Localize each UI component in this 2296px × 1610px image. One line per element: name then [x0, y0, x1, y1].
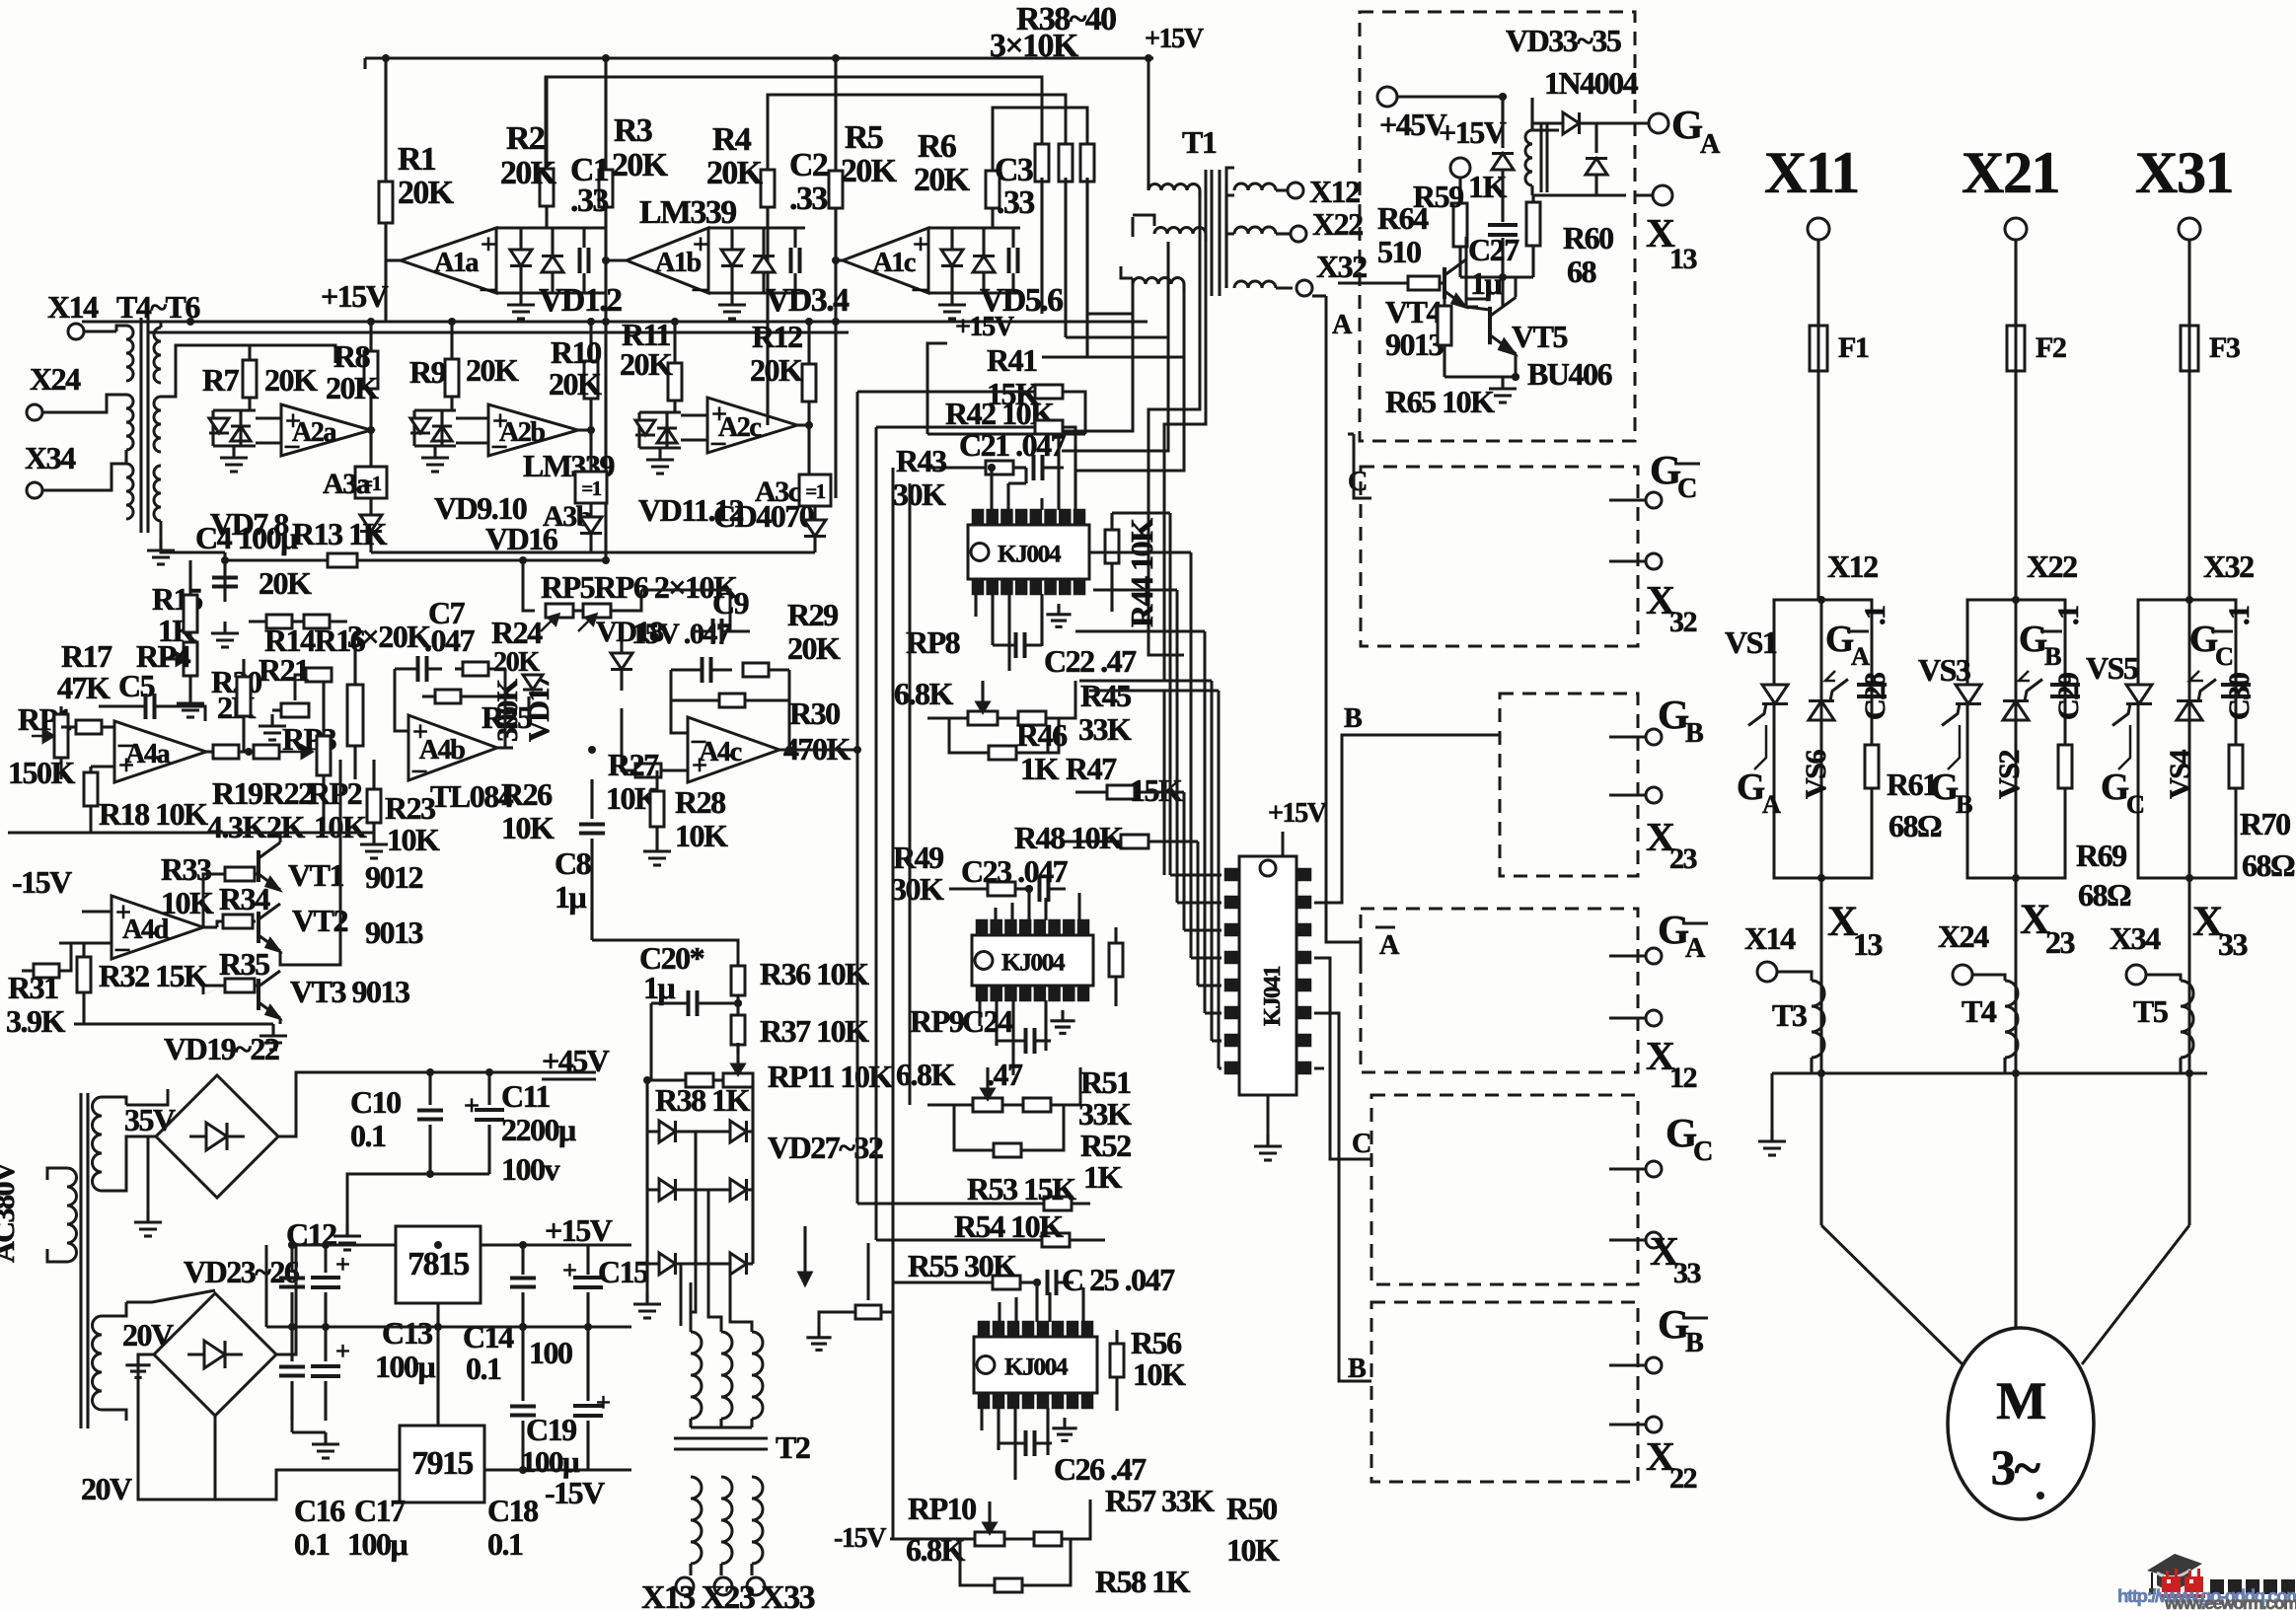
- label R45 33K: [1078, 678, 1132, 747]
- op-amp A2c: [681, 398, 797, 453]
- watermark chongchong red: [2160, 1569, 2205, 1598]
- label +15V top right: [1145, 24, 1205, 54]
- label R49 30K: [891, 840, 944, 907]
- diode A3c out: [804, 506, 826, 552]
- svg-text:R69: R69: [2076, 838, 2126, 873]
- terminal X14: [47, 289, 116, 339]
- diode VD1: [496, 228, 606, 293]
- label X13 big: [1827, 899, 1883, 962]
- diode VD3: [708, 228, 805, 293]
- ground A1b: [718, 293, 746, 319]
- resistor R8: [326, 322, 379, 467]
- label C26 .47: [1054, 1451, 1147, 1487]
- T5 coil: [2146, 975, 2193, 1073]
- svg-text:R35: R35: [219, 946, 269, 982]
- pot RP9: [927, 1067, 1002, 1112]
- svg-text:+: +: [481, 230, 495, 260]
- svg-text:R29: R29: [787, 597, 838, 632]
- terminal GBbar t1: [1609, 1357, 1662, 1373]
- svg-text:R46: R46: [1016, 717, 1068, 753]
- resistor R15: [152, 560, 202, 648]
- wire A4c minus: [671, 700, 688, 733]
- label X13 X23 X33: [641, 1579, 815, 1610]
- svg-text:VT4: VT4: [1385, 294, 1442, 329]
- resistor R14: [249, 615, 304, 628]
- svg-text:23: 23: [1669, 842, 1698, 875]
- label C17 100u: [347, 1493, 408, 1562]
- capacitor C22: [993, 632, 1042, 658]
- label R50 10K: [1226, 1491, 1280, 1568]
- svg-text:C: C: [1693, 1136, 1712, 1167]
- svg-text:+: +: [335, 1337, 349, 1365]
- label C20* 1u: [639, 940, 704, 1005]
- junction dots top bus: [382, 54, 1152, 62]
- wire A4c out: [779, 746, 858, 754]
- svg-text:VT5: VT5: [1512, 319, 1567, 354]
- capacitor C11: [464, 1068, 504, 1174]
- svg-text:30K: 30K: [891, 871, 944, 907]
- svg-text:VD3.4: VD3.4: [766, 282, 850, 319]
- svg-text:20K: 20K: [914, 162, 971, 198]
- wire trunk b: [1046, 278, 1133, 431]
- svg-text:20K: 20K: [500, 155, 557, 191]
- transistor VT2: [259, 903, 423, 951]
- label X32 r: [2203, 549, 2254, 584]
- cap C15: [510, 1241, 536, 1331]
- KJ041 left pins: [1225, 869, 1239, 1073]
- wire kj041 right1: [1314, 735, 1500, 903]
- resistor R49b: [949, 882, 1033, 896]
- svg-text:4.3K: 4.3K: [207, 809, 267, 844]
- resistor R60: [1526, 195, 1613, 289]
- fuse F2: [2007, 240, 2066, 600]
- label C19 100u: [521, 1412, 580, 1479]
- svg-text:R58 1K: R58 1K: [1095, 1564, 1191, 1599]
- svg-text:RP2: RP2: [308, 775, 362, 811]
- resistor R22: [254, 745, 313, 844]
- svg-text:R34: R34: [219, 881, 270, 916]
- watermark url gray: [2164, 1593, 2296, 1610]
- label R5 20K: [841, 119, 898, 189]
- label R4 20K: [706, 121, 764, 191]
- svg-text:VD19~22: VD19~22: [164, 1031, 279, 1066]
- wire R40 bottom run: [1087, 312, 1133, 315]
- label LM339 row2: [523, 448, 615, 483]
- wire mesh vertical 1: [856, 392, 859, 1204]
- capacitor C21: [1034, 455, 1065, 480]
- T1 secondary coil 3: [1234, 281, 1293, 288]
- resistor R57: [1034, 1483, 1215, 1546]
- label R42 10K: [945, 396, 1055, 431]
- fuse F1: [1810, 240, 1869, 600]
- label B box3: [1344, 703, 1363, 734]
- op-amp A1c: [832, 228, 928, 294]
- resistor R45: [998, 681, 1075, 725]
- label T5: [2133, 993, 2168, 1029]
- svg-text:R38 1K: R38 1K: [655, 1082, 751, 1118]
- svg-text:+: +: [335, 1250, 349, 1279]
- svg-text:+15V: +15V: [955, 312, 1015, 342]
- svg-text:20K: 20K: [326, 370, 379, 405]
- label VD11.12: [638, 492, 743, 528]
- svg-text:C10: C10: [350, 1084, 401, 1120]
- svg-text:33: 33: [2218, 926, 2248, 962]
- sec coil 35V: [93, 1097, 127, 1191]
- svg-text:A3a: A3a: [323, 467, 371, 500]
- label RP9 C24: [910, 1003, 1013, 1039]
- diode A3a out: [360, 498, 382, 552]
- pot RP4: [136, 638, 204, 717]
- terminal GAbar t2: [1609, 1010, 1662, 1026]
- svg-text:B: B: [1956, 790, 1972, 819]
- wire 7815 out: [481, 1212, 631, 1248]
- svg-text:X24: X24: [30, 361, 81, 397]
- resistor R58: [960, 1539, 1191, 1599]
- svg-text:R22: R22: [262, 775, 313, 811]
- label C21 .047: [959, 427, 1067, 463]
- svg-text:C: C: [2215, 642, 2233, 671]
- svg-text:C19: C19: [526, 1412, 576, 1447]
- junction dots rails: [288, 1069, 2193, 1331]
- svg-text:C29: C29: [2051, 673, 2085, 720]
- svg-text:3×10K: 3×10K: [990, 28, 1079, 64]
- svg-text:X34: X34: [2110, 920, 2161, 956]
- label T3: [1772, 997, 1807, 1033]
- label 20V: [122, 1317, 174, 1353]
- svg-text:X11: X11: [1764, 140, 1859, 206]
- svg-text:B: B: [1348, 1354, 1367, 1384]
- wire trunk c: [1062, 242, 1168, 451]
- resistor R52: [954, 1105, 1131, 1195]
- terminal GAbar t1: [1609, 948, 1662, 964]
- pot RP3: [259, 675, 336, 757]
- cap C13: [311, 1241, 349, 1327]
- resistor R36: [731, 956, 869, 1016]
- svg-text:20K: 20K: [549, 366, 602, 402]
- T4 coil: [1972, 975, 2018, 1073]
- op-amp A4b: [408, 715, 513, 780]
- T1 secondary common: [1226, 168, 1234, 288]
- wire row2 out: [371, 550, 815, 553]
- label X33 big: [2192, 899, 2248, 962]
- resistor R23: [360, 760, 440, 858]
- svg-text:C 25 .047: C 25 .047: [1062, 1262, 1175, 1297]
- label CD4070: [713, 498, 814, 534]
- label C11 2200u 100v: [501, 1078, 576, 1187]
- resistor R42: [876, 420, 1075, 446]
- svg-text:1μ: 1μ: [555, 879, 587, 915]
- svg-text:+45V: +45V: [1379, 107, 1447, 142]
- label B box6: [1348, 1354, 1367, 1384]
- T2 primary coils: [691, 1190, 763, 1427]
- sec coil 20V: [93, 1302, 127, 1421]
- svg-text:R48 10K: R48 10K: [1014, 820, 1124, 855]
- svg-text:10K: 10K: [501, 810, 555, 845]
- transformer T4-T6 secondary: [154, 328, 161, 521]
- op-amp A1a: [386, 228, 496, 294]
- svg-text:6.8K: 6.8K: [894, 676, 954, 711]
- svg-text:T5: T5: [2133, 993, 2168, 1029]
- svg-text:C3: C3: [995, 152, 1033, 188]
- op-amp A4c: [688, 715, 779, 782]
- resistor R2: [540, 77, 554, 228]
- wire A4a fb: [91, 766, 114, 768]
- svg-text:23: 23: [2045, 924, 2075, 960]
- svg-text:RP5RP6 2×10K: RP5RP6 2×10K: [541, 569, 738, 605]
- svg-text:C28: C28: [1858, 672, 1891, 720]
- terminal X13b: [676, 1577, 694, 1595]
- svg-text:B: B: [1685, 1328, 1704, 1358]
- label 3x20K: [347, 619, 431, 654]
- wire to RP5: [523, 560, 535, 611]
- svg-text:R56: R56: [1131, 1325, 1182, 1360]
- wire kj041 right3: [1314, 1013, 1371, 1381]
- label VD33~35: [1506, 23, 1621, 58]
- watermark url blue: [2117, 1585, 2296, 1606]
- svg-text:=1: =1: [805, 481, 825, 503]
- label X32 box: [1646, 577, 1697, 638]
- svg-text:C22 .47: C22 .47: [1044, 643, 1137, 679]
- svg-text:G: G: [2189, 620, 2218, 660]
- wire pulse gnd rail: [1772, 1073, 2207, 1130]
- label A node: [1332, 310, 1353, 340]
- svg-text:RP10: RP10: [908, 1491, 976, 1526]
- svg-text:F3: F3: [2209, 330, 2241, 364]
- capacitor C9: [691, 619, 750, 644]
- svg-text:X12: X12: [1827, 549, 1878, 584]
- dashed box GC: [1371, 1095, 1638, 1284]
- wire kj041 right4: [1314, 1067, 1324, 1070]
- diode VD12: [657, 412, 677, 448]
- svg-text:33K: 33K: [1078, 1096, 1132, 1132]
- svg-text:C7: C7: [428, 595, 466, 630]
- svg-text:+: +: [464, 1091, 479, 1122]
- svg-text:10K: 10K: [675, 818, 728, 853]
- svg-text:LM339: LM339: [639, 194, 736, 231]
- terminal X14 r: [1744, 920, 1796, 982]
- capacitor C2: [791, 228, 800, 293]
- label C5: [118, 668, 155, 703]
- wire C20 branch: [592, 940, 738, 967]
- caps below rail: [279, 1327, 349, 1421]
- regulator 7815: [396, 1226, 481, 1303]
- svg-text:33: 33: [1673, 1256, 1702, 1289]
- svg-text:R51: R51: [1080, 1064, 1131, 1100]
- label R70 68: [2240, 806, 2295, 883]
- svg-text:20K: 20K: [841, 153, 898, 189]
- svg-text:A: A: [1762, 790, 1781, 819]
- svg-text:.33: .33: [789, 181, 827, 217]
- svg-text:G: G: [1671, 102, 1703, 147]
- xor A3b: [543, 472, 607, 533]
- label VD16: [485, 521, 558, 556]
- label C18 0.1: [487, 1493, 538, 1562]
- svg-text:+15V: +15V: [1439, 114, 1507, 150]
- resistor R33: [161, 851, 259, 920]
- svg-text:RP11 10K: RP11 10K: [768, 1059, 893, 1094]
- svg-text:R5: R5: [845, 119, 883, 156]
- resistor R38: [1035, 144, 1049, 314]
- wires kj1 bottom: [976, 594, 1072, 671]
- resistor R6: [986, 171, 1000, 228]
- label 35V: [124, 1102, 176, 1137]
- svg-text:R70: R70: [2240, 806, 2290, 842]
- svg-text:R26: R26: [501, 776, 553, 812]
- node A wire: [1312, 296, 1361, 942]
- wire sec out right: [161, 345, 335, 397]
- wires kj3 top: [1000, 1282, 1083, 1322]
- svg-text:R36 10K: R36 10K: [760, 956, 869, 991]
- label C3 .33: [995, 152, 1034, 221]
- resistor R48: [1014, 820, 1169, 855]
- diode VD9: [410, 410, 456, 446]
- svg-text:R18 10K: R18 10K: [99, 796, 208, 832]
- svg-text:C: C: [2126, 790, 2144, 819]
- wires kj2 top: [996, 889, 1079, 920]
- label +15V kj1: [927, 312, 1015, 434]
- label X22 box: [1646, 1433, 1697, 1495]
- label C1 .33: [570, 152, 609, 219]
- svg-text:+: +: [692, 751, 706, 781]
- svg-text:R31: R31: [8, 970, 58, 1005]
- label X12 r: [1827, 549, 1878, 584]
- mid rail: [266, 1245, 631, 1331]
- op-amp A4a: [114, 719, 206, 782]
- svg-text:9012: 9012: [365, 859, 423, 895]
- svg-text:R57 33K: R57 33K: [1105, 1483, 1215, 1518]
- resistor R53: [857, 1171, 1090, 1210]
- terminal X23b: [714, 1577, 732, 1595]
- svg-text:X22: X22: [2027, 549, 2077, 584]
- svg-text:A1c: A1c: [872, 248, 915, 278]
- label R65 10K: [1385, 384, 1495, 419]
- dashed box VD33-35: [1360, 12, 1635, 441]
- svg-text:R54 10K: R54 10K: [954, 1208, 1064, 1244]
- svg-text:.47: .47: [987, 1057, 1023, 1092]
- svg-text:VS4: VS4: [2163, 750, 2196, 799]
- resistor R5: [829, 58, 843, 498]
- label VD5.6: [980, 282, 1063, 319]
- ground mid: [292, 1421, 339, 1458]
- wire +15V top bus: [365, 58, 1153, 69]
- resistor R21: [259, 652, 332, 688]
- diode bridge VD27-32: [647, 1080, 753, 1282]
- wire kj041 right2: [1314, 958, 1371, 1159]
- label R26 10K: [501, 776, 555, 845]
- svg-text:12: 12: [1669, 1061, 1697, 1094]
- label R3 20K: [612, 112, 669, 183]
- bridge mid vertical: [694, 1132, 697, 1264]
- svg-text:7815: 7815: [407, 1246, 469, 1282]
- T1 primary coil 1: [1148, 183, 1200, 198]
- capacitor C20: [651, 990, 742, 1080]
- resistor R1: [379, 58, 393, 322]
- svg-text:0.1: 0.1: [487, 1526, 523, 1562]
- label R69 68: [2076, 838, 2131, 913]
- terminal +15V drv: [1450, 158, 1470, 203]
- svg-text:C24: C24: [962, 1003, 1013, 1039]
- svg-text:3.9K: 3.9K: [6, 1003, 66, 1039]
- svg-text:20K: 20K: [259, 565, 312, 601]
- thyristor module C VS5/VS4: [2101, 596, 2256, 882]
- dashed box GCbar: [1361, 467, 1638, 646]
- svg-text:100μ: 100μ: [521, 1444, 580, 1479]
- svg-text:B: B: [1685, 718, 1704, 749]
- terminal GA out: [1649, 102, 1721, 160]
- svg-text:1N4004: 1N4004: [1544, 65, 1639, 101]
- svg-text:C16: C16: [294, 1493, 345, 1528]
- wire R38 bottom run: [1042, 355, 1184, 358]
- label GCbar: [1650, 447, 1700, 504]
- resistor R3: [599, 58, 613, 560]
- svg-text:T1: T1: [1182, 124, 1217, 160]
- svg-text:A: A: [1332, 310, 1353, 340]
- svg-text:C21 .047: C21 .047: [959, 427, 1067, 463]
- ground VT3: [259, 1024, 287, 1050]
- wire box2 entry: [1348, 434, 1371, 498]
- resistor R34: [203, 881, 270, 928]
- svg-text:A1a: A1a: [434, 248, 479, 278]
- svg-text:X24: X24: [1938, 918, 1989, 954]
- terminal X24 r: [1938, 918, 1989, 985]
- svg-text:1μ: 1μ: [1470, 265, 1503, 301]
- capacitor C3: [1009, 228, 1018, 293]
- svg-text:C4 100μ: C4 100μ: [195, 520, 298, 555]
- label C23 .047: [961, 853, 1069, 889]
- label +15V drv: [1439, 114, 1507, 150]
- svg-text:.1: .1: [2222, 606, 2256, 625]
- wire A4b net: [395, 669, 505, 748]
- svg-text:-15V: -15V: [834, 1523, 887, 1554]
- gnd VD27: [633, 1282, 661, 1318]
- watermark site name: [2210, 1579, 2295, 1594]
- diode VD11: [635, 412, 681, 448]
- label C8 1u: [555, 845, 591, 915]
- label T1: [1182, 124, 1217, 160]
- resistor R32: [77, 943, 208, 1024]
- label C9: [712, 585, 749, 621]
- svg-text:R12: R12: [752, 319, 802, 354]
- label -15V .047: [631, 617, 731, 650]
- ground VD7.8: [220, 446, 248, 472]
- capacitor C10: [417, 1068, 443, 1174]
- wires kj1 top: [927, 434, 1085, 510]
- label VD7.8: [210, 506, 288, 542]
- wire T4 sec bottom: [147, 521, 225, 564]
- svg-text:.1: .1: [2051, 606, 2085, 625]
- svg-text:C23 .047: C23 .047: [961, 853, 1069, 889]
- svg-text:C8: C8: [555, 845, 591, 881]
- terminal GB t1: [1609, 729, 1662, 745]
- svg-text:G: G: [1825, 620, 1854, 660]
- svg-text:0.1: 0.1: [466, 1351, 501, 1386]
- svg-text:+: +: [412, 717, 427, 748]
- svg-text:RP9: RP9: [910, 1003, 964, 1039]
- svg-text:C11: C11: [501, 1078, 550, 1114]
- svg-text:T4: T4: [1962, 993, 1997, 1029]
- label VS3: [1918, 652, 1970, 688]
- svg-text:VS5: VS5: [2086, 650, 2138, 686]
- trunk kj a: [1169, 513, 1172, 875]
- label AC380V: [0, 1161, 21, 1263]
- svg-text:20V: 20V: [122, 1317, 174, 1353]
- diode VD17: [523, 675, 543, 720]
- svg-text:R24: R24: [491, 615, 543, 650]
- pulse transformer primary: [1525, 98, 1547, 195]
- svg-text:A: A: [1685, 933, 1706, 964]
- watermark cap logo: [2147, 1554, 2202, 1594]
- pot RP1: [18, 701, 72, 779]
